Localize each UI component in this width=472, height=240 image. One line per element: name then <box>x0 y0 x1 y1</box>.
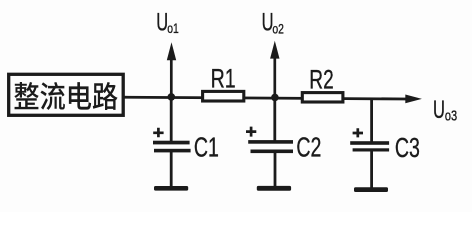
capacitor C2 polarity + <box>246 127 256 137</box>
wire C1 bottom lead <box>170 152 173 188</box>
capacitor C2 bottom plate <box>251 150 294 154</box>
node junction dot B (Uo2 / C2 tap) <box>271 94 279 102</box>
svg-text:R1: R1 <box>211 63 236 93</box>
ground bar C3 <box>354 187 388 192</box>
capacitor C1 bottom plate <box>154 149 191 153</box>
ground bar C1 <box>154 186 188 191</box>
wire C1 top lead <box>170 97 173 142</box>
voltage label Uo2 <box>262 9 284 36</box>
rectifier circuit box <box>9 74 124 115</box>
svg-text:C1: C1 <box>194 132 219 163</box>
ground bar C2 <box>257 186 291 191</box>
capacitor C1 polarity + <box>153 128 163 138</box>
capacitor C3 bottom plate <box>353 148 390 151</box>
capacitor C2 top plate <box>248 140 293 144</box>
resistor R1 <box>203 91 244 101</box>
svg-text:C3: C3 <box>395 133 420 164</box>
svg-text:R2: R2 <box>309 65 333 95</box>
wire C3 bottom lead <box>370 151 373 189</box>
capacitor C3 polarity + <box>353 128 363 137</box>
svg-text:o3: o3 <box>445 107 457 124</box>
resistor R2 <box>302 93 343 102</box>
wire main horizontal bus <box>123 97 407 99</box>
wire C2 bottom lead <box>274 153 277 188</box>
capacitor C1 top plate <box>153 141 190 145</box>
voltage label Uo1 <box>156 9 179 36</box>
node junction dot A (Uo1 / C1 tap) <box>168 93 176 101</box>
wire Uo2 branch (vertical shaft) <box>273 55 276 97</box>
svg-text:o1: o1 <box>167 21 179 37</box>
svg-text:U: U <box>433 97 445 124</box>
wire C2 top lead <box>273 97 276 140</box>
voltage label Uo3 <box>433 97 457 124</box>
svg-text:C2: C2 <box>296 132 321 163</box>
arrowhead Uo3 (output) <box>405 95 422 104</box>
capacitor C3 top plate <box>350 141 389 145</box>
rectifier box label 整流电路 <box>14 82 117 110</box>
wire C3 top lead <box>370 99 373 142</box>
wire Uo1 branch (vertical shaft) <box>170 56 173 97</box>
arrowhead Uo1 <box>167 42 176 60</box>
arrowhead Uo2 <box>270 41 279 59</box>
svg-text:o2: o2 <box>272 21 284 37</box>
svg-text:U: U <box>156 9 168 36</box>
